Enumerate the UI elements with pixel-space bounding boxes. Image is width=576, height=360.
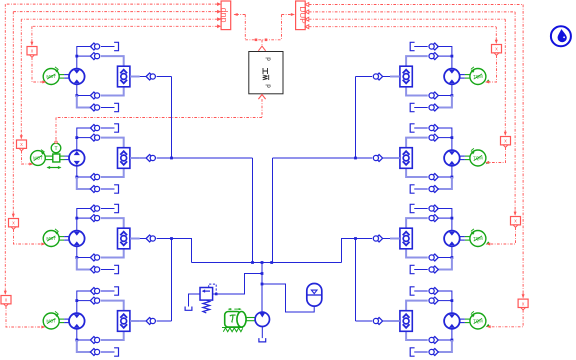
shaft R1 [460, 75, 470, 79]
check valve R3.3 [429, 254, 438, 261]
check valve L3.4 [90, 266, 99, 273]
wire trunk row3 jog [172, 239, 192, 263]
check valve L3.1 [90, 205, 99, 212]
junction R4 top [451, 299, 454, 302]
rotary prime mover MOT L3 [43, 229, 60, 247]
shaft L2b [60, 156, 69, 160]
check valve R4.2 [429, 297, 438, 304]
tank L2 top [114, 124, 118, 132]
shaft R3 [460, 237, 470, 241]
signal wire to load R3 [486, 227, 516, 245]
wire R2 pump top port [451, 128, 453, 151]
pin right DUP out2 [305, 10, 309, 14]
junction trunk right A [354, 157, 357, 160]
check valve R1.1 [429, 43, 438, 50]
motor arrows [228, 308, 242, 310]
junction L2 bottom [75, 176, 78, 179]
tank L4 top [114, 287, 118, 295]
wire R3 cv4 to tank [414, 269, 428, 271]
wire R3 valve outlet stub [390, 238, 400, 240]
signal duplicator DUP left [218, 1, 231, 30]
wire R4 upper supply [437, 290, 452, 292]
wire L4 lower drain [77, 340, 91, 352]
wire R3 cv1 to tank [414, 208, 428, 210]
check valve R3.5 outlet [373, 235, 382, 242]
wire R2 cv3 feed [438, 176, 452, 178]
signal wire right bus row1 [309, 27, 498, 44]
wire R4 pump bottom port [451, 329, 453, 340]
shaft motor-pump [246, 318, 255, 321]
wire R4 outlet [382, 320, 390, 322]
torque load TQ R3 [470, 229, 490, 247]
signal wire right bus row4 [309, 5, 525, 299]
check valve L1.3 [90, 92, 99, 99]
wire R1 cv3 to valve bottom [406, 87, 428, 96]
wire R1 pump top port [451, 46, 453, 69]
wire R1 cv2 feed [438, 55, 452, 57]
wire R2 lower drain [438, 177, 452, 189]
check valve R4.4 [429, 349, 438, 356]
wire L1 pump top port [76, 46, 78, 69]
hydraulic pump/motor L1 [69, 69, 85, 85]
check valve R1.3 [429, 92, 438, 99]
wire trunk left downleg [252, 158, 254, 263]
check valve R3.2 [429, 215, 438, 222]
wire R2 outlet [382, 157, 390, 159]
check valve L4.1 [90, 288, 99, 295]
tank R1 top [410, 42, 414, 50]
signal wire left riser [244, 15, 246, 40]
tank L1 top [114, 42, 118, 50]
wire trunk mid horizontal [192, 262, 342, 264]
wire L1 cv2 to valve top [101, 56, 124, 66]
wire R3 cv2 to valve top [406, 218, 428, 228]
junction L1 top [75, 55, 78, 58]
wire L4 cv4 to tank [101, 351, 115, 353]
hydraulic pump/motor L4 [69, 313, 85, 329]
tank R2 top [410, 124, 414, 132]
junction signal bus b [265, 39, 268, 42]
accumulator ACC [307, 284, 322, 307]
wire L4 upper supply [77, 290, 92, 292]
wire R4 lower drain [438, 340, 452, 352]
junction trunk mid center [261, 261, 264, 264]
junction charge E [261, 283, 264, 286]
signal wire to motor L2 [22, 151, 34, 166]
shaft R4 [460, 319, 470, 323]
transmission-ratio block U1 [249, 52, 283, 94]
charge pump P0 [255, 312, 269, 326]
wire charge line vertical [261, 263, 263, 312]
tank L4 bottom [114, 348, 118, 356]
wire L4 cv1 to tank [101, 290, 115, 292]
wire L2 lower drain [77, 177, 91, 189]
signal wire right bus row3 [309, 12, 517, 216]
wire R2 to trunk [356, 157, 373, 159]
check valve L4.5 outlet [146, 318, 155, 325]
wire R3 pump top port [451, 208, 453, 231]
gain block K-R4 [518, 299, 528, 310]
tank R2 bottom [410, 185, 414, 193]
wire L2 valve outlet stub [130, 157, 140, 159]
check valve R3.1 [429, 205, 438, 212]
wire R1 cv2 to valve top [406, 56, 428, 66]
shaft L2a [45, 156, 53, 160]
pilot check valve block R3 [400, 228, 412, 249]
check valve L2.1 [90, 125, 99, 132]
gain block K-R1 [492, 45, 502, 56]
check valve L2.5 outlet [146, 155, 155, 162]
check valve L3.2 [90, 215, 99, 222]
check valve L4.4 [90, 349, 99, 356]
gain block K-L3 [9, 219, 19, 230]
gain block K-R3 [511, 217, 521, 228]
wire R1 valve outlet stub [390, 76, 400, 78]
tank R3 top [410, 204, 414, 212]
wire R4 cv4 to tank [414, 351, 428, 353]
wire R4 pump top port [451, 291, 453, 314]
tank L3 bottom [114, 265, 118, 273]
wire L2 cv3 to valve bottom [101, 169, 124, 178]
junction trunk left A [170, 157, 173, 160]
shaft R2 [460, 156, 470, 160]
tank L3 top [114, 204, 118, 212]
wire L1 lower drain [77, 96, 91, 108]
wire R2 cv4 to tank [414, 188, 428, 190]
check valve R4.1 [429, 288, 438, 295]
hydraulic pump/motor L2 [69, 150, 85, 166]
rotary speed sensor T L2 [51, 143, 61, 154]
pilot check valve block L2 [118, 148, 130, 169]
junction R1 bottom [451, 94, 454, 97]
motor hatching [222, 328, 243, 332]
rotary prime mover MOT L1 [43, 67, 60, 85]
tank below relief valve [185, 307, 192, 311]
wire L4 outlet [140, 320, 147, 322]
hydraulic library logo [551, 26, 571, 46]
wire L3 cv2 feed [77, 217, 91, 219]
wire R3 lower drain [438, 258, 452, 270]
wire L2 outlet [140, 157, 147, 159]
junction R2 top [451, 136, 454, 139]
wire to relief valve [213, 274, 262, 295]
wire L1 cv1 to tank [101, 46, 115, 48]
wire L1 cv4 to tank [101, 107, 115, 109]
check valve L1.5 outlet [146, 73, 155, 80]
wire R4 cv2 to valve top [406, 301, 428, 311]
junction L4 bottom [75, 339, 78, 342]
check valve R2.5 outlet [373, 155, 382, 162]
torque sensor shaft block L2 [53, 154, 60, 162]
junction trunk left C [170, 237, 173, 240]
wire R1 cv1 to tank [414, 46, 428, 48]
signal wire out of block bottom [258, 95, 265, 118]
wire trunk row2 right to downleg [273, 157, 356, 159]
signal wire to load R1 [485, 55, 497, 83]
check valve R2.4 [429, 186, 438, 193]
pilot check valve block L1 [118, 66, 130, 87]
wire charge pump to tank [261, 327, 263, 339]
wire R3 cv3 feed [438, 257, 452, 259]
wire R1 to trunk [356, 76, 373, 78]
electric motor M [225, 312, 246, 328]
wire L2 cv3 feed [77, 176, 91, 178]
signal wire sensor riser [55, 118, 57, 144]
junction trunk left B [251, 261, 254, 264]
pilot check valve block L4 [118, 311, 130, 332]
signal wire to load R2 [485, 147, 506, 164]
rotary load/prime-mover MOT L2 [31, 150, 46, 166]
wire R1 cv3 feed [438, 95, 452, 97]
shaft L4 [59, 319, 69, 323]
wire trunk rows3-4 left [171, 239, 173, 322]
check valve L4.2 [90, 297, 99, 304]
tank R4 top [410, 287, 414, 295]
signal wire DUP-left input [234, 13, 246, 16]
wire L3 cv1 to tank [101, 208, 115, 210]
junction charge D [261, 272, 264, 275]
wire L3 cv2 to valve top [101, 218, 124, 228]
wire L3 outlet [140, 238, 147, 240]
junction R4 bottom [451, 339, 454, 342]
wire L2 cv4 to tank [101, 188, 115, 190]
tank R4 bottom [410, 348, 414, 356]
wire R1 lower drain [438, 96, 452, 108]
wire R1 outlet [382, 76, 390, 78]
junction L3 bottom [75, 256, 78, 259]
wire R2 cv2 feed [438, 137, 452, 139]
wire R2 cv2 to valve top [406, 138, 428, 148]
wire L4 cv2 to valve top [101, 301, 124, 311]
wire L3 cv3 feed [77, 257, 91, 259]
hydraulic pump/motor R2 [444, 150, 460, 166]
wire R3 to trunk [356, 238, 373, 240]
pin right DUP out4 [305, 25, 309, 29]
check valve R1.2 [429, 53, 438, 60]
wire L3 cv3 to valve bottom [101, 249, 124, 258]
wire L4 cv3 to valve bottom [101, 332, 124, 341]
wire L2 pump bottom port [76, 166, 78, 177]
wire L1 outlet [140, 76, 147, 78]
wire R3 pump bottom port [451, 246, 453, 257]
junction L4 top [75, 299, 78, 302]
wire L1 pump bottom port [76, 84, 78, 95]
check valve R2.3 [429, 174, 438, 181]
shaft L1 [59, 75, 69, 79]
signal wire to motor L3 [14, 229, 46, 245]
tank R1 bottom [410, 103, 414, 111]
junction L1 bottom [75, 94, 78, 97]
junction R3 bottom [451, 256, 454, 259]
svg-text:DUP: DUP [298, 6, 307, 24]
pilot check valve block R4 [400, 311, 412, 332]
wire L4 cv2 feed [77, 300, 91, 302]
wire trunk row3 right jog [342, 239, 356, 263]
wire R3 upper supply [437, 208, 452, 210]
wire L3 valve outlet stub [130, 238, 140, 240]
wire L1 valve outlet stub [130, 76, 140, 78]
wire L4 to trunk [157, 320, 172, 322]
wire R4 cv3 feed [438, 339, 452, 341]
wire L1 cv3 feed [77, 95, 91, 97]
pin right DUP out3 [305, 17, 309, 21]
check valve L2.4 [90, 186, 99, 193]
shaft L3 [59, 237, 69, 241]
check valve L2.2 [90, 134, 99, 141]
wire L2 upper supply [77, 127, 92, 129]
pilot check valve block L3 [118, 228, 130, 249]
check valve L4.3 [90, 337, 99, 344]
wire L2 to trunk [157, 157, 172, 159]
check valve L1.1 [90, 43, 99, 50]
check valve L1.2 [90, 53, 99, 60]
pin right DUP out1 [305, 3, 309, 7]
signal wire right riser [281, 15, 283, 40]
signal wire to motor L1 [32, 57, 47, 83]
wire L2 cv1 to tank [101, 127, 115, 129]
relief valve spring [203, 300, 210, 313]
signal wire right bus row2 [309, 19, 507, 136]
wire R4 cv3 to valve bottom [406, 332, 428, 341]
pin left DUP out3 [217, 17, 221, 21]
wire L3 pump top port [76, 208, 78, 231]
check valve L2.3 [90, 174, 99, 181]
wire R2 pump bottom port [451, 166, 453, 177]
check valve L1.4 [90, 104, 99, 111]
check valve R1.4 [429, 104, 438, 111]
signal wire left bus row3 [12, 12, 218, 218]
check valve L3.3 [90, 254, 99, 261]
svg-text:dup: dup [218, 8, 228, 23]
check valve R2.1 [429, 125, 438, 132]
wire L3 cv4 to tank [101, 269, 115, 271]
wire R1 pump bottom port [451, 84, 453, 95]
check valve R3.4 [429, 266, 438, 273]
tank L1 bottom [114, 103, 118, 111]
wire L3 pump bottom port [76, 246, 78, 257]
signal wire left bus row4 [4, 4, 218, 295]
gain block K-L4 [1, 296, 11, 307]
wire relief to tank [189, 294, 201, 307]
junction R1 top [451, 55, 454, 58]
signal duplicator DUP right [296, 1, 307, 30]
gain block K-L2 [17, 140, 27, 151]
wire L1 cv2 feed [77, 55, 91, 57]
signal wire to load R4 [487, 310, 524, 328]
wire L3 to trunk [157, 238, 172, 240]
rotary prime mover MOT L4 [43, 311, 60, 329]
wire L3 lower drain [77, 258, 91, 270]
check valve R4.5 outlet [373, 318, 382, 325]
wire R2 cv3 to valve bottom [406, 169, 428, 178]
wire L2 cv2 feed [77, 137, 91, 139]
gain block K-L1 [27, 47, 37, 58]
check valve R4.3 [429, 337, 438, 344]
pilot check valve block R1 [400, 66, 412, 87]
junction trunk right C [354, 237, 357, 240]
wire trunk rows3-4 right [355, 239, 357, 322]
wire R4 cv2 feed [438, 300, 452, 302]
tank L2 bottom [114, 185, 118, 193]
torque load TQ R4 [470, 311, 490, 329]
wire R4 valve outlet stub [390, 320, 400, 322]
junction R3 top [451, 217, 454, 220]
torque load TQ R1 [470, 67, 490, 85]
signal wire to motor L4 [6, 306, 46, 328]
junction L2 top [75, 136, 78, 139]
wire R3 cv2 feed [438, 217, 452, 219]
pin left DUP out4 [217, 24, 221, 28]
hydraulic pump/motor R4 [444, 313, 460, 329]
wire L1 cv3 to valve bottom [101, 87, 124, 96]
wire L4 pump top port [76, 291, 78, 314]
wire R4 to trunk [356, 320, 373, 322]
check valve L3.5 outlet [146, 235, 155, 242]
pilot check valve block R2 [400, 148, 412, 169]
gain block K-R2 [501, 137, 511, 148]
wire trunk right downleg [272, 158, 274, 263]
wire L2 cv2 to valve top [101, 138, 124, 148]
wire L1 upper supply [77, 46, 92, 48]
signal wire DUP-right input [282, 13, 296, 16]
wire R3 cv3 to valve bottom [406, 249, 428, 258]
wire L4 pump bottom port [76, 329, 78, 340]
signal wire block to sensor [56, 117, 262, 119]
hydraulic pump/motor R1 [444, 69, 460, 85]
wire trunk row2 to downleg [172, 157, 253, 159]
relief valve pilot line [209, 284, 218, 295]
hydraulic pump/motor L3 [69, 231, 85, 247]
signal bus above block [245, 39, 281, 41]
junction R2 bottom [451, 176, 454, 179]
wire R1 cv4 to tank [414, 107, 428, 109]
wire L2 pump top port [76, 128, 78, 151]
relief valve V1 [200, 288, 213, 301]
check valve R2.2 [429, 134, 438, 141]
wire R1 upper supply [437, 46, 452, 48]
wire trunk right rows1-2 [355, 77, 357, 159]
junction L3 top [75, 217, 78, 220]
pin left DUP out1 [217, 2, 221, 6]
tank R3 bottom [410, 265, 414, 273]
wire to accumulator [262, 284, 314, 312]
double arrow marker L2 [47, 166, 62, 169]
signal wire into block top [258, 40, 265, 51]
junction signal bus a [255, 39, 258, 42]
wire L4 valve outlet stub [130, 320, 140, 322]
wire L3 upper supply [77, 208, 92, 210]
wire trunk left rows1-2 [171, 77, 173, 159]
tank below charge pump [259, 338, 266, 342]
wire R2 upper supply [437, 127, 452, 129]
signal wire left bus row2 [20, 19, 218, 139]
wire R2 cv1 to tank [414, 127, 428, 129]
torque load TQ R2 [470, 148, 490, 166]
wire R4 cv1 to tank [414, 290, 428, 292]
wire L4 cv3 feed [77, 339, 91, 341]
check valve R1.5 outlet [373, 73, 382, 80]
hydraulic pump/motor R3 [444, 231, 460, 247]
junction trunk mid right [270, 261, 273, 264]
wire R2 valve outlet stub [390, 157, 400, 159]
wire L1 to trunk [157, 76, 172, 78]
signal wire left bus row1 [30, 26, 217, 46]
wire R3 outlet [382, 238, 390, 240]
pin left DUP out2 [217, 10, 221, 14]
